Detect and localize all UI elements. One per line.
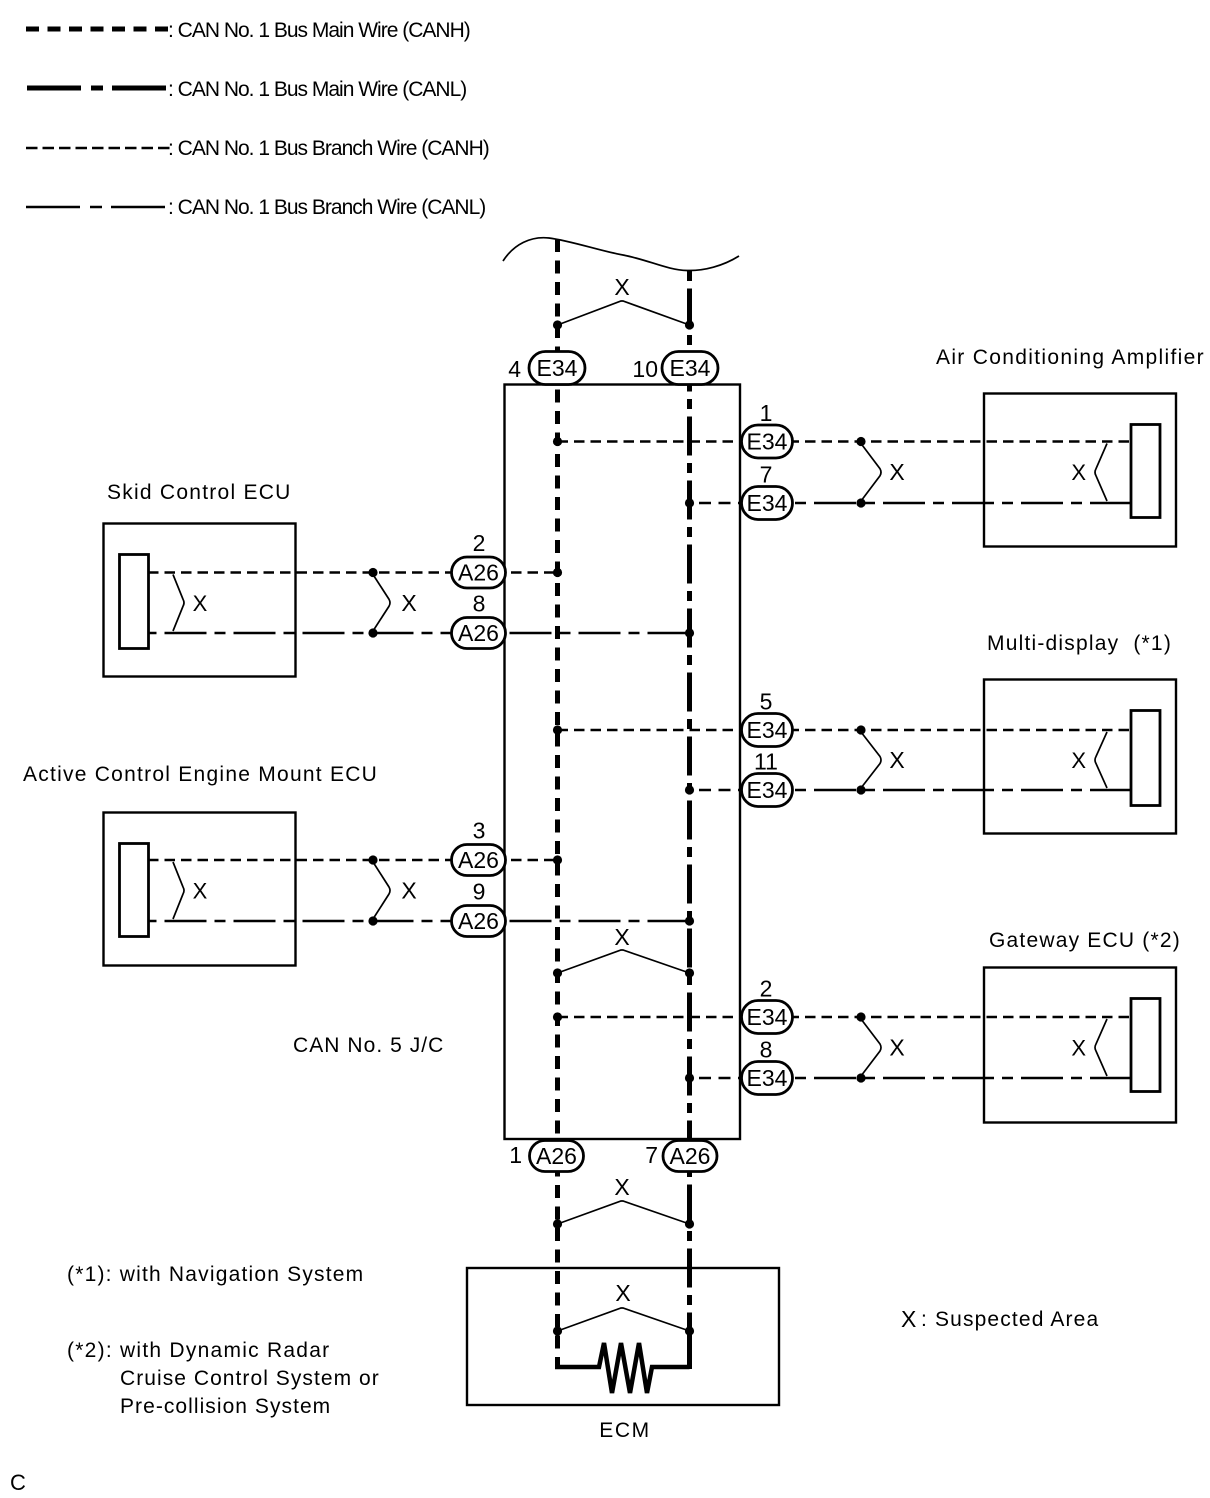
svg-text:(*2): with Dynamic Radar: (*2): with Dynamic Radar — [67, 1339, 330, 1362]
svg-text:7: 7 — [760, 462, 773, 488]
svg-text:Skid Control ECU: Skid Control ECU — [107, 481, 292, 504]
svg-text:8: 8 — [473, 591, 486, 617]
svg-text:(*1): with Navigation System: (*1): with Navigation System — [67, 1263, 364, 1286]
svg-text:4: 4 — [508, 356, 521, 382]
svg-text:X: X — [1071, 1036, 1086, 1061]
svg-text:A26: A26 — [536, 1143, 577, 1169]
svg-text:X: X — [401, 878, 416, 904]
svg-text:1: 1 — [509, 1142, 522, 1168]
svg-text:2: 2 — [760, 976, 773, 1002]
svg-text:E34: E34 — [747, 777, 788, 803]
svg-text:X: X — [889, 747, 904, 773]
svg-text:E34: E34 — [670, 355, 711, 381]
svg-text:1: 1 — [760, 400, 773, 426]
svg-text:2: 2 — [473, 530, 486, 556]
svg-text:: CAN No. 1 Bus Branch Wire (C: : CAN No. 1 Bus Branch Wire (CANH) — [168, 137, 489, 160]
svg-text:E34: E34 — [747, 1065, 788, 1091]
svg-text:ECM: ECM — [599, 1419, 650, 1442]
svg-text:E34: E34 — [747, 1004, 788, 1030]
svg-text:11: 11 — [754, 749, 778, 775]
svg-text:Active Control Engine Mount EC: Active Control Engine Mount ECU — [23, 763, 378, 786]
svg-text:: CAN No. 1 Bus Main Wire (CAN: : CAN No. 1 Bus Main Wire (CANH) — [168, 19, 470, 42]
svg-text:C: C — [10, 1470, 26, 1495]
svg-text:X: X — [614, 274, 629, 300]
svg-text:E34: E34 — [747, 490, 788, 516]
svg-text:Pre-collision System: Pre-collision System — [120, 1395, 331, 1418]
svg-text:X: X — [1071, 460, 1086, 485]
svg-text:10: 10 — [632, 356, 658, 382]
svg-text:A26: A26 — [458, 620, 499, 646]
svg-text:A26: A26 — [458, 560, 499, 586]
svg-text:: Suspected Area: : Suspected Area — [921, 1308, 1099, 1331]
svg-text:: CAN No. 1 Bus Main Wire (CAN: : CAN No. 1 Bus Main Wire (CANL) — [168, 78, 466, 101]
svg-text:9: 9 — [473, 879, 486, 905]
svg-text:X: X — [614, 1174, 629, 1200]
svg-text:E34: E34 — [747, 429, 788, 455]
svg-text:8: 8 — [760, 1037, 773, 1063]
svg-text:A26: A26 — [670, 1143, 711, 1169]
svg-text:X: X — [193, 879, 208, 904]
svg-text:Multi-display (*1): Multi-display (*1) — [987, 632, 1172, 655]
svg-text:X: X — [889, 459, 904, 485]
svg-text:X: X — [901, 1306, 916, 1332]
svg-text:CAN No. 5 J/C: CAN No. 5 J/C — [293, 1034, 444, 1057]
svg-text:X: X — [401, 590, 416, 616]
svg-text:3: 3 — [473, 818, 486, 844]
svg-text:E34: E34 — [747, 717, 788, 743]
svg-text:X: X — [193, 591, 208, 616]
svg-text:Cruise Control System or: Cruise Control System or — [120, 1367, 380, 1390]
svg-text:X: X — [615, 1280, 630, 1306]
svg-text:X: X — [614, 924, 629, 950]
svg-text:: CAN No. 1 Bus Branch Wire (C: : CAN No. 1 Bus Branch Wire (CANL) — [168, 196, 485, 219]
svg-text:A26: A26 — [458, 908, 499, 934]
svg-text:E34: E34 — [537, 355, 578, 381]
svg-text:5: 5 — [760, 689, 773, 715]
svg-text:A26: A26 — [458, 847, 499, 873]
svg-text:7: 7 — [645, 1142, 658, 1168]
svg-text:Air Conditioning Amplifier: Air Conditioning Amplifier — [936, 346, 1205, 369]
svg-text:X: X — [889, 1035, 904, 1061]
svg-text:X: X — [1071, 748, 1086, 773]
svg-text:Gateway ECU (*2): Gateway ECU (*2) — [989, 929, 1181, 952]
